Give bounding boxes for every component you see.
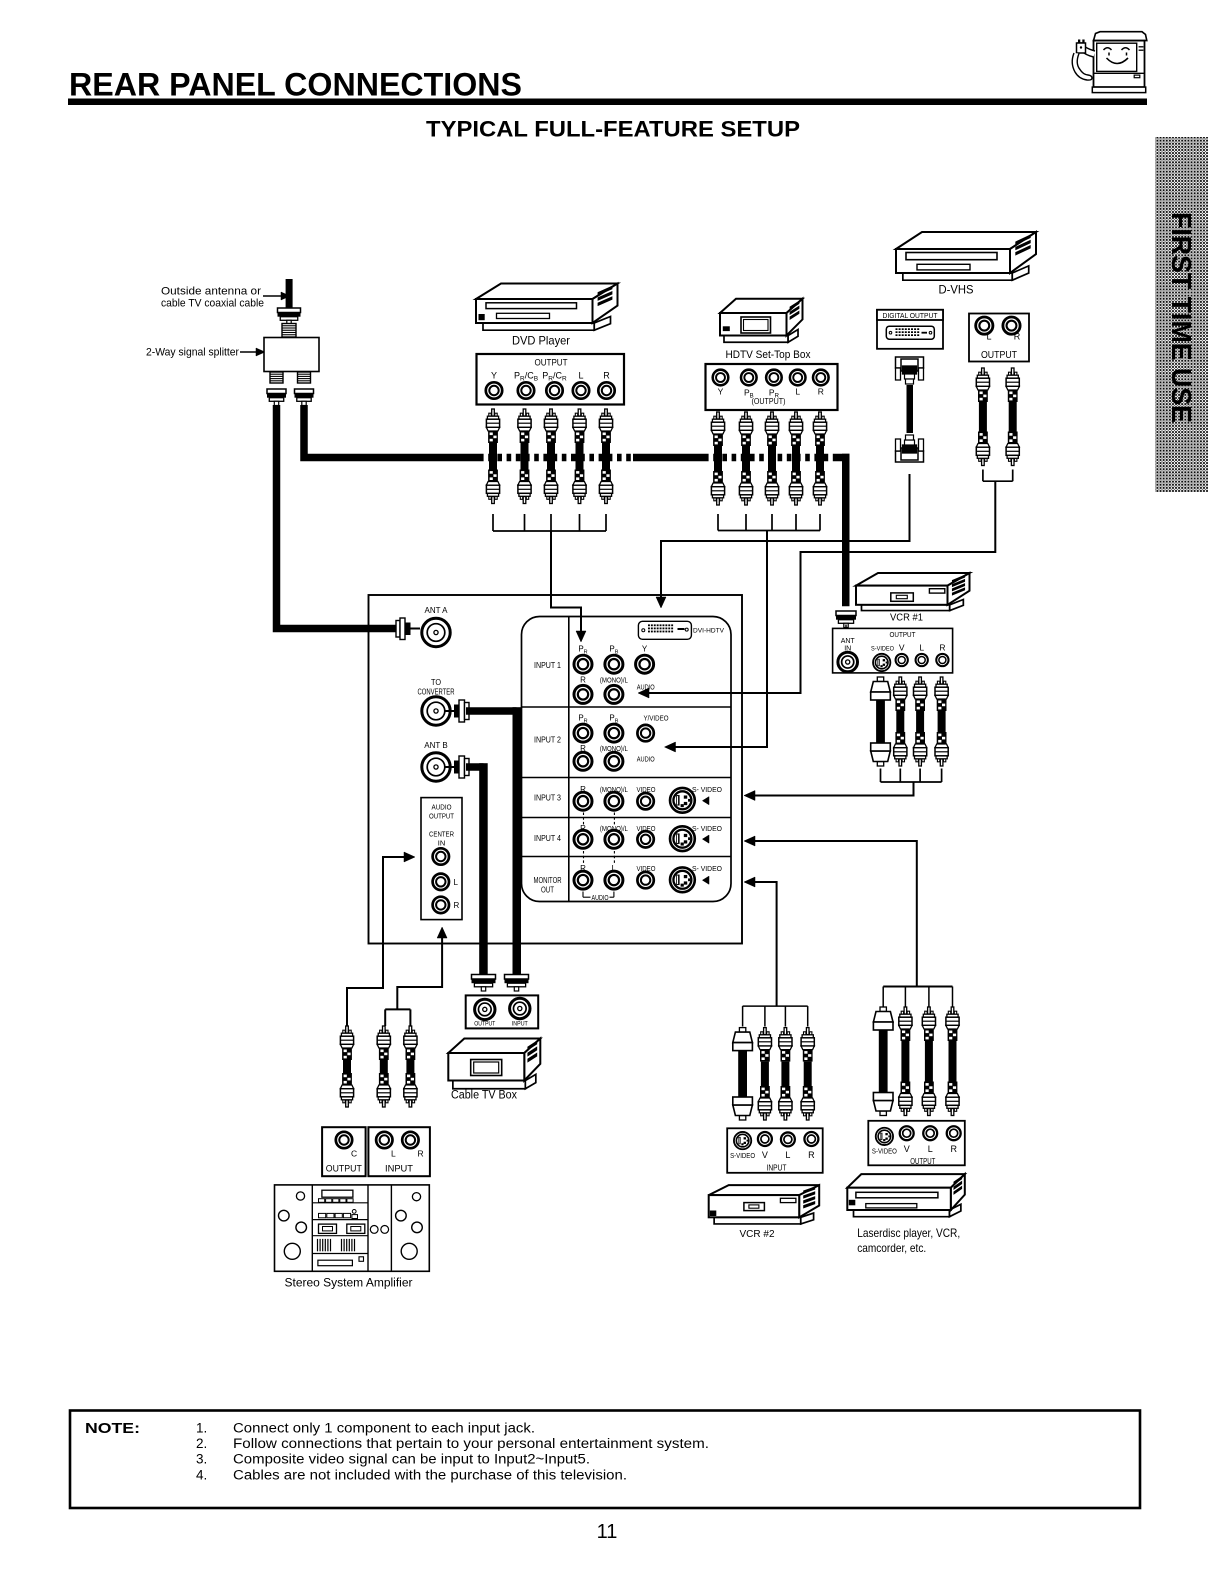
HDTV output panel bbox=[706, 364, 838, 410]
cable VCR2 S-video bbox=[739, 1028, 745, 1033]
wire VCR1 to INPUT3 arrow bbox=[755, 782, 914, 796]
jack L (VCR1) bbox=[916, 654, 928, 666]
jack INPUT (cable box) bbox=[510, 998, 530, 1018]
svg-text:ANT: ANT bbox=[841, 638, 856, 645]
jack S-VIDEO (laserdisc) bbox=[876, 1128, 893, 1145]
coax cable dashed segment 1 bbox=[479, 454, 633, 462]
stereo OUTPUT panel bbox=[322, 1127, 366, 1176]
svg-text:S-VIDEO: S-VIDEO bbox=[871, 646, 894, 653]
svg-text:NOTE:: NOTE: bbox=[85, 1420, 140, 1437]
jack ANT B bbox=[422, 753, 450, 781]
DVI cable upper plug bbox=[896, 357, 924, 368]
cable HDTV 5 bbox=[819, 412, 822, 419]
jack PB (INPUT2) bbox=[605, 724, 623, 742]
arrow to antenna cable bbox=[263, 295, 281, 297]
svg-text:Stereo System Amplifier: Stereo System Amplifier bbox=[285, 1276, 413, 1290]
svg-text:Outside antenna or: Outside antenna or bbox=[161, 286, 261, 298]
svg-text:DIGITAL OUTPUT: DIGITAL OUTPUT bbox=[883, 311, 938, 320]
svg-text:V: V bbox=[762, 1150, 768, 1160]
svg-text:C: C bbox=[351, 1149, 357, 1159]
svg-text:DVI-HDTV: DVI-HDTV bbox=[693, 627, 724, 634]
svg-text:R: R bbox=[939, 643, 945, 653]
svg-text:R: R bbox=[454, 901, 460, 910]
svg-text:AUDIO: AUDIO bbox=[637, 755, 655, 764]
laserdisc output panel bbox=[868, 1121, 965, 1166]
device Laserdisc player bbox=[854, 1210, 950, 1217]
jack L (INPUT1) bbox=[605, 685, 623, 703]
dashed link R input3-4 bbox=[583, 813, 585, 827]
row line input3/input4 bbox=[522, 817, 732, 819]
title underline rule bbox=[68, 99, 1147, 106]
svg-text:OUTPUT: OUTPUT bbox=[326, 1164, 362, 1174]
jack R (INPUT3) bbox=[574, 792, 592, 810]
jack R (DVD) bbox=[598, 382, 614, 398]
svg-text:OUTPUT: OUTPUT bbox=[890, 630, 916, 639]
bracket DVD cables bbox=[492, 514, 494, 531]
svg-text:INPUT: INPUT bbox=[512, 1022, 528, 1028]
cable stereo L bbox=[383, 1026, 386, 1033]
cable stereo R bbox=[409, 1026, 412, 1033]
jack Y (INPUT1) bbox=[636, 655, 654, 673]
jack PB (HDTV) bbox=[741, 370, 757, 386]
wire DVI to DVI-HDTV port arrow bbox=[661, 474, 910, 597]
svg-text:OUTPUT: OUTPUT bbox=[535, 358, 568, 369]
svg-text:AUDIO: AUDIO bbox=[637, 683, 655, 692]
svg-text:L: L bbox=[391, 1149, 396, 1159]
bracket laserdisc cables bbox=[883, 986, 952, 988]
coax cable solid segment 2 bbox=[633, 454, 704, 462]
coax cable corner to VCR1 bbox=[833, 454, 850, 462]
svg-text:4.: 4. bbox=[196, 1467, 207, 1482]
jack PR (INPUT1) bbox=[574, 655, 592, 673]
jack L (MONITOR) bbox=[605, 871, 623, 889]
svg-text:S-VIDEO: S-VIDEO bbox=[730, 1153, 755, 1160]
jack V (laserdisc) bbox=[900, 1126, 914, 1140]
jack R (HDTV) bbox=[813, 370, 829, 386]
svg-text:(MONO)/L: (MONO)/L bbox=[600, 676, 628, 685]
svg-text:INPUT 2: INPUT 2 bbox=[534, 736, 561, 745]
svg-text:DVD Player: DVD Player bbox=[512, 334, 570, 348]
FIRST TIME USE side tab bbox=[1155, 137, 1208, 492]
svg-text:OUT: OUT bbox=[541, 886, 554, 895]
jack R (INPUT1) bbox=[574, 685, 592, 703]
jack Y (DVD) bbox=[486, 382, 502, 398]
coax cable TO CONVERTER to cable box IN bbox=[466, 707, 517, 715]
splitter output connector right bbox=[295, 389, 314, 394]
svg-text:REAR PANEL CONNECTIONS: REAR PANEL CONNECTIONS bbox=[69, 67, 522, 103]
cable DVD 4 bbox=[578, 409, 581, 416]
DVI cable bbox=[907, 385, 914, 433]
DIGITAL OUTPUT box bbox=[877, 310, 943, 349]
cable VCR1 S-video bbox=[877, 677, 883, 682]
splitter output connector left bbox=[267, 389, 286, 394]
jack Y/VIDEO (INPUT2) bbox=[637, 725, 653, 741]
cable HDTV 4 bbox=[795, 412, 798, 419]
svg-text:OUTPUT: OUTPUT bbox=[474, 1022, 495, 1028]
device HDTV Set-Top Box bbox=[724, 336, 788, 343]
jack VIDEO (INPUT3) bbox=[637, 793, 653, 809]
device D-VHS bbox=[903, 273, 1012, 280]
svg-text:Follow connections that pertai: Follow connections that pertain to your … bbox=[233, 1436, 709, 1451]
cable DVD 1 bbox=[492, 409, 495, 416]
svg-text:FIRST TIME USE: FIRST TIME USE bbox=[1166, 212, 1197, 423]
jack PR/CR (DVD) bbox=[546, 382, 562, 398]
svg-text:AUDIO: AUDIO bbox=[592, 895, 609, 902]
splitter output thread right bbox=[298, 372, 311, 383]
svg-text:Y: Y bbox=[642, 645, 648, 654]
svg-text:camcorder, etc.: camcorder, etc. bbox=[857, 1241, 926, 1255]
coax cable ANT B to cable box OUT bbox=[466, 763, 484, 771]
coax cable dashed segment 2 bbox=[704, 454, 833, 462]
jack R (VCR1) bbox=[936, 654, 948, 666]
cable VCR2 V bbox=[764, 1028, 767, 1035]
jack PB (INPUT1) bbox=[605, 655, 623, 673]
svg-text:INPUT 3: INPUT 3 bbox=[534, 794, 561, 803]
svg-text:S- VIDEO: S- VIDEO bbox=[692, 864, 722, 873]
coax connector at cable box IN bbox=[505, 975, 529, 980]
svg-text:OUTPUT: OUTPUT bbox=[981, 350, 1017, 361]
cable VCR2 R bbox=[806, 1028, 809, 1035]
cable laserdisc S-video bbox=[880, 1007, 886, 1012]
svg-text:S-VIDEO: S-VIDEO bbox=[872, 1149, 897, 1156]
svg-text:IN: IN bbox=[438, 839, 446, 848]
svg-text:ANT A: ANT A bbox=[425, 606, 449, 615]
jack S-VIDEO (INPUT4) bbox=[670, 826, 695, 851]
arrow to splitter bbox=[240, 351, 256, 353]
svg-text:(OUTPUT): (OUTPUT) bbox=[752, 396, 786, 406]
jack S-VIDEO (VCR2) bbox=[734, 1132, 751, 1149]
divider label column bbox=[568, 617, 570, 902]
svg-text:Laserdisc player, VCR,: Laserdisc player, VCR, bbox=[857, 1226, 960, 1240]
svg-text:Composite video signal can be: Composite video signal can be input to I… bbox=[233, 1452, 590, 1467]
svg-text:INPUT: INPUT bbox=[385, 1164, 414, 1174]
coax plug at VCR1 ANT IN bbox=[836, 611, 856, 616]
cable VCR1 R bbox=[940, 677, 943, 684]
jack VIDEO (INPUT4) bbox=[637, 831, 653, 847]
svg-text:AUDIO: AUDIO bbox=[432, 803, 452, 812]
jack OUTPUT (cable box) bbox=[475, 999, 495, 1019]
svg-text:HDTV Set-Top Box: HDTV Set-Top Box bbox=[726, 349, 811, 361]
cable box jack panel bbox=[466, 995, 539, 1028]
svg-text:L: L bbox=[578, 371, 583, 381]
svg-text:cable TV coaxial cable: cable TV coaxial cable bbox=[161, 298, 264, 310]
svg-text:Y: Y bbox=[491, 371, 497, 381]
svg-text:D-VHS: D-VHS bbox=[939, 283, 974, 297]
jack V (VCR2) bbox=[758, 1132, 772, 1146]
bracket VCR2 cables bbox=[743, 1005, 808, 1007]
jack R audio out (TV) bbox=[433, 897, 449, 913]
jack PR/CB (DVD) bbox=[518, 382, 534, 398]
svg-text:R: R bbox=[950, 1144, 957, 1154]
device VCR #1 bbox=[861, 605, 949, 611]
cable laserdisc L bbox=[928, 1007, 931, 1014]
cable HDTV 1 bbox=[717, 412, 720, 419]
cable laserdisc R bbox=[951, 1007, 954, 1014]
svg-text:V: V bbox=[904, 1144, 910, 1154]
jack R (INPUT2) bbox=[574, 752, 592, 770]
coax connector at cable box OUT bbox=[472, 975, 496, 980]
device Stereo System Amplifier bbox=[275, 1185, 430, 1271]
NOTE box bbox=[70, 1411, 1140, 1509]
cable HDTV 2 bbox=[745, 412, 748, 419]
jack R (MONITOR) bbox=[574, 871, 592, 889]
svg-text:L: L bbox=[454, 878, 459, 887]
svg-text:VCR #2: VCR #2 bbox=[740, 1228, 775, 1240]
NOTE list bbox=[196, 1421, 709, 1483]
cable DVD 5 bbox=[605, 409, 608, 416]
antenna coaxial cable top bbox=[286, 279, 293, 309]
jack L (laserdisc) bbox=[923, 1126, 937, 1140]
coax cable splitter to VCR1 (solid part) bbox=[304, 405, 479, 458]
jack S-VIDEO (INPUT3) bbox=[670, 788, 695, 813]
svg-text:L: L bbox=[785, 1150, 790, 1160]
row line input1/input2 bbox=[522, 706, 732, 708]
dashed link L input4-mon bbox=[613, 851, 615, 864]
svg-text:L: L bbox=[986, 332, 991, 342]
row line input2/input3 bbox=[522, 777, 732, 779]
jack ANT A bbox=[422, 618, 450, 646]
VCR1 output panel bbox=[833, 628, 953, 673]
jack L (stereo in) bbox=[376, 1132, 392, 1148]
svg-text:R: R bbox=[1014, 332, 1021, 342]
svg-text:R: R bbox=[418, 1149, 424, 1159]
jack TO CONVERTER bbox=[422, 697, 450, 725]
svg-text:INPUT: INPUT bbox=[767, 1164, 787, 1173]
2-way signal splitter box bbox=[264, 338, 319, 372]
DVD output panel bbox=[477, 354, 625, 405]
svg-text:V: V bbox=[899, 643, 905, 653]
svg-text:S- VIDEO: S- VIDEO bbox=[692, 785, 722, 794]
svg-text:Cable TV Box: Cable TV Box bbox=[451, 1090, 517, 1102]
cable VCR2 L bbox=[784, 1028, 787, 1035]
mark arrow S-VIDEO (MONITOR) bbox=[702, 876, 709, 884]
jack L (INPUT4) bbox=[605, 830, 623, 848]
DVI cable lower plug bbox=[896, 451, 924, 462]
bracket HDTV cables bbox=[717, 514, 719, 531]
cable HDTV 3 bbox=[771, 412, 774, 419]
mark arrow S-VIDEO (INPUT4) bbox=[702, 835, 709, 843]
F plug at TO CONVERTER bbox=[445, 710, 454, 712]
splitter output thread left bbox=[270, 372, 283, 383]
cable VCR1 V bbox=[899, 677, 902, 684]
audio bracket (MONITOR) bbox=[582, 892, 584, 898]
svg-text:L: L bbox=[795, 387, 800, 397]
svg-text:3.: 3. bbox=[196, 1452, 207, 1467]
device VCR #2 bbox=[714, 1217, 801, 1224]
jack R (laserdisc) bbox=[947, 1126, 961, 1140]
F plug at ANT B bbox=[445, 766, 454, 768]
svg-text:S- VIDEO: S- VIDEO bbox=[692, 824, 722, 833]
svg-text:L: L bbox=[928, 1144, 933, 1154]
svg-text:OUTPUT: OUTPUT bbox=[429, 812, 454, 821]
svg-text:1.: 1. bbox=[196, 1421, 207, 1436]
jack L (INPUT2) bbox=[605, 752, 623, 770]
svg-text:2-Way signal splitter: 2-Way signal splitter bbox=[146, 347, 239, 359]
svg-text:Connect only 1 component to ea: Connect only 1 component to each input j… bbox=[233, 1421, 535, 1436]
cable D-VHS audio R bbox=[1011, 368, 1014, 375]
jack R (D-VHS) bbox=[1003, 317, 1020, 334]
jack R (VCR2) bbox=[804, 1132, 818, 1146]
TV rear panel outer box bbox=[369, 595, 743, 944]
wire stereo C to CENTER IN arrow bbox=[347, 857, 404, 1026]
svg-text:OUTPUT: OUTPUT bbox=[910, 1157, 935, 1166]
jack L (D-VHS) bbox=[976, 317, 993, 334]
jack S-VIDEO (MONITOR) bbox=[670, 867, 695, 892]
jack PR (HDTV) bbox=[766, 370, 782, 386]
cable laserdisc V bbox=[904, 1007, 907, 1014]
jack PR (INPUT2) bbox=[574, 724, 592, 742]
svg-text:CENTER: CENTER bbox=[429, 830, 454, 839]
VCR2 input panel bbox=[727, 1128, 823, 1173]
jack L (INPUT3) bbox=[605, 792, 623, 810]
wire HDTV to INPUT2 arrow bbox=[676, 531, 768, 748]
DVI connector (D-VHS) bbox=[886, 326, 934, 339]
stereo INPUT panel bbox=[368, 1127, 430, 1176]
jack L audio out (TV) bbox=[433, 874, 449, 890]
cable DVD 3 bbox=[550, 409, 553, 416]
wire DVD to INPUT1 arrow bbox=[551, 531, 581, 631]
device DVD Player bbox=[483, 323, 594, 330]
jack V (VCR1) bbox=[896, 654, 908, 666]
D-VHS audio OUTPUT box bbox=[969, 314, 1029, 362]
svg-text:R: R bbox=[580, 676, 586, 685]
TV input jack panel bbox=[522, 617, 732, 902]
coax cable splitter to ANT A bbox=[277, 405, 397, 629]
dashed link L input3-4 bbox=[613, 813, 615, 827]
jack L (VCR2) bbox=[781, 1132, 795, 1146]
svg-text:R: R bbox=[808, 1150, 815, 1160]
svg-text:Y: Y bbox=[718, 387, 724, 397]
jack ANT IN (VCR1) bbox=[838, 652, 858, 672]
wire D-VHS audio to INPUT1 AUDIO arrow bbox=[649, 481, 995, 693]
cable VCR1 L bbox=[919, 677, 922, 684]
svg-text:2.: 2. bbox=[196, 1436, 207, 1451]
jack L (HDTV) bbox=[790, 370, 806, 386]
TV AUDIO OUTPUT box bbox=[421, 798, 462, 920]
row line input4/monitor bbox=[522, 856, 732, 858]
svg-text:TYPICAL FULL-FEATURE SETUP: TYPICAL FULL-FEATURE SETUP bbox=[426, 117, 800, 142]
splitter input thread bbox=[282, 324, 296, 338]
wire MONITOR OUT to VCR2 arrow bbox=[755, 882, 777, 1006]
svg-text:L: L bbox=[919, 643, 924, 653]
svg-text:TO: TO bbox=[431, 678, 441, 687]
svg-text:Cables are not included with t: Cables are not included with the purchas… bbox=[233, 1467, 627, 1482]
svg-text:R: R bbox=[818, 387, 824, 397]
jack R (INPUT4) bbox=[574, 830, 592, 848]
jack S-VIDEO (VCR1) bbox=[873, 654, 890, 671]
bracket VCR1 cables bbox=[880, 769, 882, 783]
TV mascot icon bbox=[1072, 32, 1147, 93]
wire stereo L/R to AUDIO OUTPUT arrow bbox=[384, 1009, 386, 1026]
wire laserdisc to INPUT4 arrow bbox=[755, 841, 917, 986]
jack R (stereo in) bbox=[402, 1132, 418, 1148]
jack L (DVD) bbox=[573, 382, 589, 398]
svg-text:11: 11 bbox=[597, 1521, 618, 1543]
svg-text:VCR #1: VCR #1 bbox=[890, 613, 923, 624]
device Cable TV Box bbox=[453, 1081, 525, 1089]
DVI-HDTV port bbox=[638, 621, 691, 639]
dashed link R input4-mon bbox=[583, 851, 585, 864]
mark arrow S-VIDEO (INPUT3) bbox=[702, 797, 709, 805]
cable D-VHS audio L bbox=[982, 368, 985, 375]
jack C (stereo out) bbox=[336, 1132, 352, 1148]
cable stereo C bbox=[346, 1026, 349, 1033]
cable DVD 2 bbox=[523, 409, 526, 416]
F plug at ANT A bbox=[396, 621, 400, 638]
svg-text:MONITOR: MONITOR bbox=[534, 876, 562, 885]
jack Y (HDTV) bbox=[713, 370, 729, 386]
svg-text:CONVERTER: CONVERTER bbox=[418, 688, 455, 697]
jack CENTER IN bbox=[433, 848, 449, 864]
svg-text:R: R bbox=[603, 371, 610, 381]
svg-text:INPUT 1: INPUT 1 bbox=[534, 661, 561, 670]
jack VIDEO (MONITOR) bbox=[637, 872, 653, 888]
svg-text:Y/VIDEO: Y/VIDEO bbox=[644, 714, 669, 723]
svg-text:INPUT 4: INPUT 4 bbox=[534, 834, 562, 843]
svg-text:ANT B: ANT B bbox=[424, 741, 447, 750]
bracket D-VHS audio cables bbox=[982, 470, 984, 482]
antenna cable connector bbox=[278, 308, 301, 313]
